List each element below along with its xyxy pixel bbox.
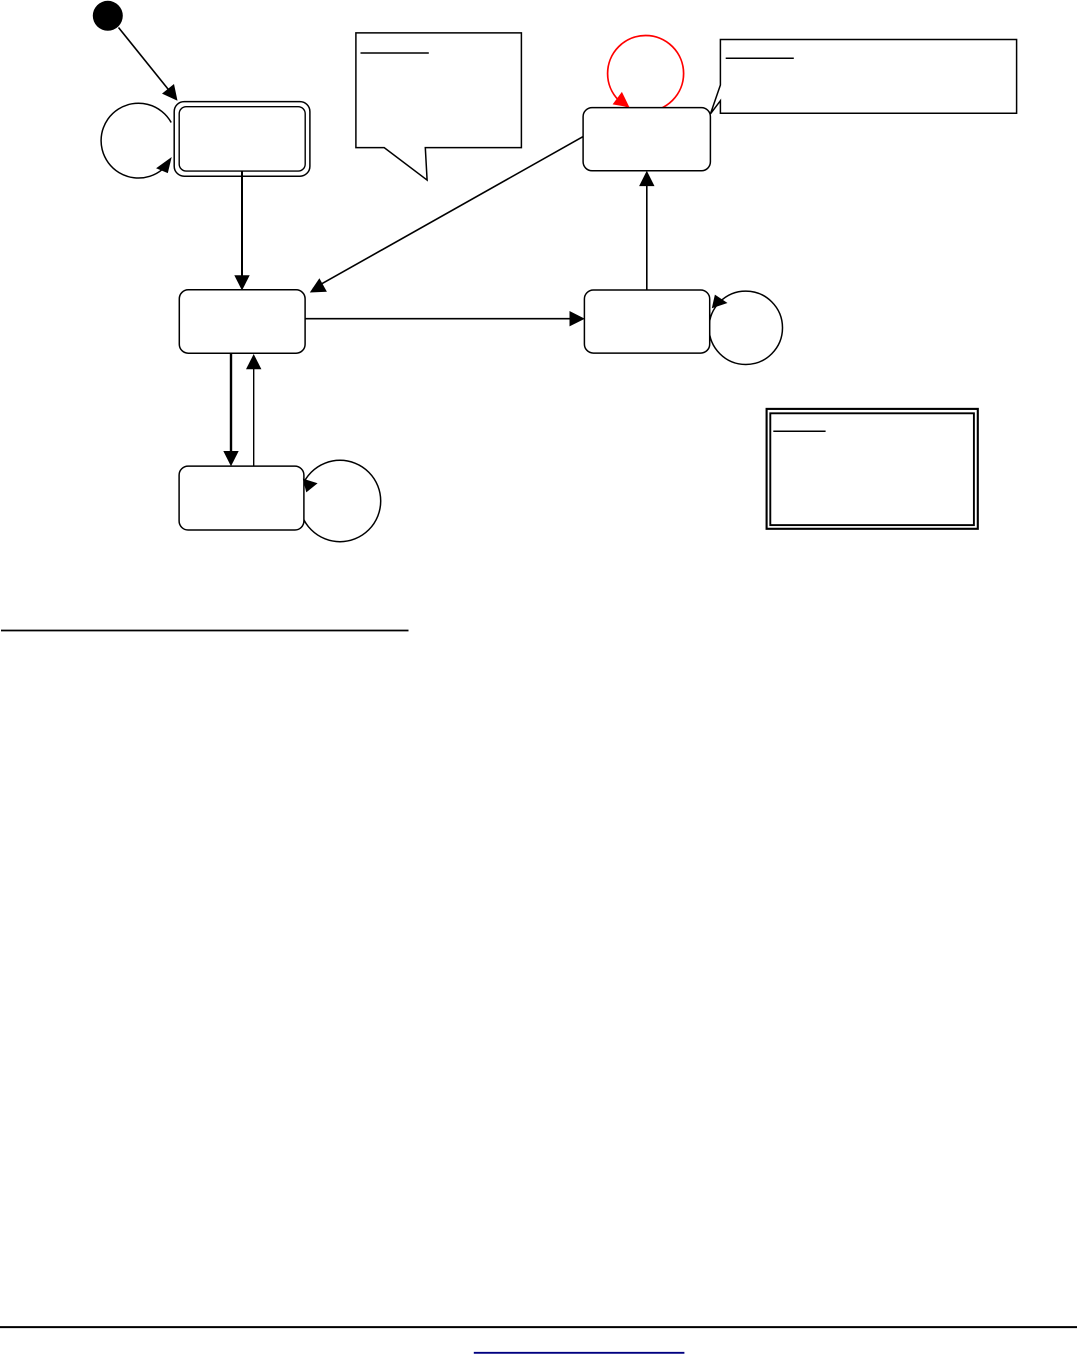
transition initial to S1 xyxy=(119,28,173,95)
section heading underline xyxy=(1,630,409,632)
state S4 xyxy=(584,290,709,353)
red arrowhead xyxy=(613,92,630,107)
self-loop on S4 xyxy=(709,291,782,364)
note N1 title underline xyxy=(361,52,429,54)
transition S3 to S2 (up) xyxy=(253,360,255,466)
legend title underline xyxy=(773,430,825,432)
transition S5 to S2 (diagonal) xyxy=(313,137,583,289)
transition S4 to S5 (vertical up) xyxy=(646,177,648,290)
note N2 title underline xyxy=(726,57,794,59)
arrowhead S3 loop xyxy=(303,479,318,493)
footer link underline xyxy=(474,1352,685,1354)
transition S2 to S4 (horizontal) xyxy=(305,318,578,320)
transition S2 to S3 (thick down) xyxy=(230,353,232,460)
state S2 xyxy=(179,290,305,353)
transition S1 to S2 xyxy=(241,171,243,284)
footer rule xyxy=(0,1326,1077,1328)
note N2 (callout) xyxy=(711,40,1017,114)
state S3 xyxy=(179,466,304,530)
self-loop on S1 xyxy=(101,103,171,178)
self-loop on S3 xyxy=(299,460,380,541)
state S1 (double border) xyxy=(174,102,310,177)
initial state dot xyxy=(93,1,123,31)
note N1 (speech bubble) xyxy=(356,33,522,180)
state S5 xyxy=(583,108,710,171)
legend box (double border) xyxy=(767,409,978,529)
red self-loop on S5 xyxy=(608,36,684,112)
arrowhead S4 loop xyxy=(712,295,728,309)
